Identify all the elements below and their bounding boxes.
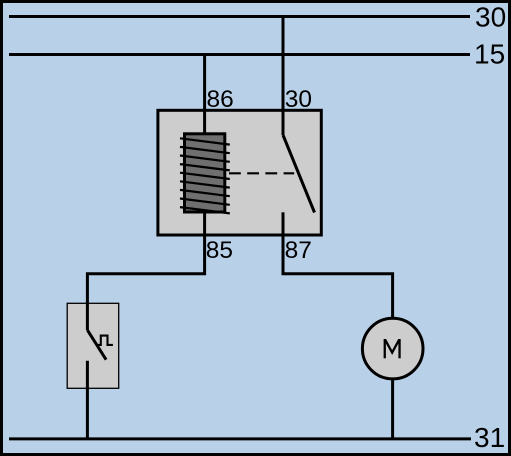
svg-text:30: 30 (475, 2, 506, 33)
wire relay pin 87 to motor M1 (283, 236, 393, 318)
svg-text:86: 86 (207, 86, 234, 113)
wire bus30 to relay pin 30 (282, 17, 285, 111)
switch S1 momentary pulse symbol (97, 336, 113, 345)
wire motor M1 to bus 31 (391, 378, 394, 439)
svg-text:87: 87 (285, 237, 312, 264)
svg-text:31: 31 (474, 422, 505, 453)
switch S1 arm (87, 330, 106, 360)
relay coil (180, 134, 230, 214)
svg-text:15: 15 (474, 39, 505, 70)
bus 31 wire (9, 437, 471, 440)
relay K1 body (158, 110, 321, 235)
bus 30 wire (9, 15, 470, 18)
wire relay pin 85 to switch S1 (87, 212, 204, 330)
switch S1 body (67, 303, 119, 388)
wire bus15 to relay pin 86 (203, 55, 206, 134)
bus 15 wire (9, 53, 470, 56)
relay contact common leg (282, 110, 285, 135)
motor label M (385, 339, 400, 358)
motor M1 body (362, 318, 423, 379)
relay contact 87 stub (282, 212, 285, 236)
relay actuation dashed link (229, 172, 294, 174)
relay contact arm (283, 135, 315, 213)
switch S1 bottom contact wire to bus 31 (86, 361, 89, 439)
svg-text:30: 30 (285, 86, 312, 113)
svg-text:85: 85 (206, 237, 233, 264)
